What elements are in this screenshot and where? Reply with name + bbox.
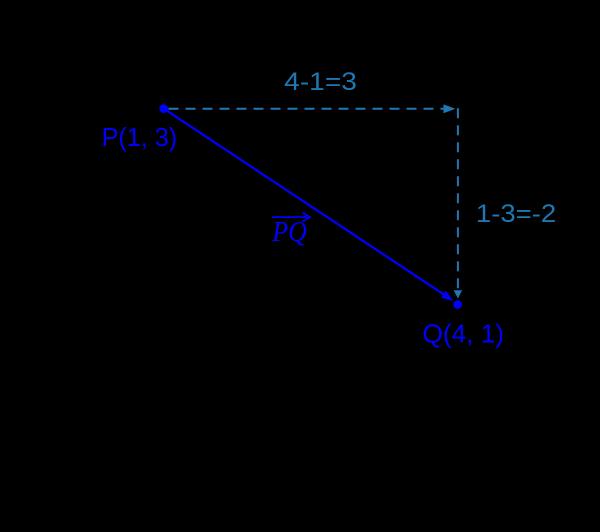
svg-text:4-1=3: 4-1=3 [284, 68, 357, 96]
vector overline arrow above PQ [272, 213, 310, 222]
vector PQ (blue arrow from P to Q) [164, 109, 454, 301]
wire: horizontal dashed component arrow (4-1=3) [169, 104, 456, 113]
svg-text:PQ: PQ [271, 216, 306, 248]
svg-text:P(1, 3): P(1, 3) [102, 122, 178, 152]
point P [159, 104, 168, 113]
point Q [453, 300, 462, 309]
wire: vertical dashed component arrow (1-3=-2) [454, 108, 462, 298]
svg-text:1-3=-2: 1-3=-2 [476, 200, 556, 228]
svg-text:Q(4, 1): Q(4, 1) [423, 318, 505, 348]
